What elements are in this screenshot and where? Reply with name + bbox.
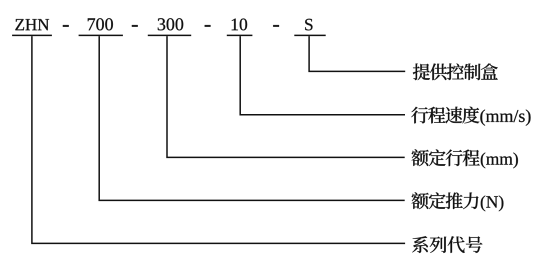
model code 700	[88, 18, 113, 30]
separator dash 3	[205, 25, 211, 27]
wire from 300	[167, 36, 405, 157]
model code 300	[158, 18, 183, 30]
label 系列代号	[412, 236, 482, 253]
wire from 10	[240, 36, 405, 115]
label 行程速度(mm/s)	[411, 107, 479, 124]
label 额定行程(mm)	[412, 149, 480, 166]
underline under 700	[79, 34, 123, 36]
label 提供控制盒	[413, 63, 498, 80]
wire from 700	[99, 36, 405, 200]
wire from S	[309, 36, 405, 71]
wire from ZHN	[32, 36, 405, 243]
label 行程速度(mm/s) latin suffix	[480, 110, 530, 126]
model code S	[305, 19, 312, 31]
separator dash 2	[132, 25, 138, 27]
underline under 10	[227, 34, 253, 36]
label 额定推力(N) latin suffix	[481, 196, 504, 212]
label 额定行程(mm) latin suffix	[481, 153, 518, 169]
label 额定推力(N)	[412, 192, 479, 209]
model code 10	[232, 19, 247, 31]
separator dash 1	[63, 25, 69, 27]
underline under 300	[148, 34, 191, 36]
underline under S	[294, 34, 325, 36]
model code ZHN	[15, 19, 49, 30]
separator dash 4	[273, 25, 279, 27]
underline under ZHN	[12, 34, 52, 36]
